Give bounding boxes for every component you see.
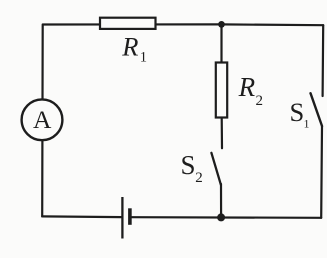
- svg-text:1: 1: [304, 117, 310, 131]
- wire bottom right (battery to corner): [132, 216, 322, 219]
- wire middle branch lower (S2 to bottom junction): [220, 184, 222, 217]
- label R1: [121, 32, 147, 66]
- svg-text:1: 1: [140, 50, 147, 66]
- resistor R1: [100, 18, 156, 29]
- switch S2 blade: [211, 153, 221, 185]
- svg-text:S: S: [181, 150, 196, 180]
- node junction top (middle branch / top wire): [218, 21, 225, 28]
- wire top side: [43, 23, 323, 26]
- wire left side: [41, 25, 44, 217]
- ammeter A1: [22, 99, 63, 140]
- svg-text:R: R: [238, 72, 256, 102]
- wire right side upper (to switch S1): [322, 25, 325, 96]
- wire middle branch upper (junction to R2): [220, 24, 222, 65]
- wire middle branch (R2 to S2 contact): [221, 117, 224, 148]
- battery B1 short plate (-): [128, 208, 132, 225]
- svg-text:2: 2: [256, 93, 264, 109]
- switch S1 blade: [311, 93, 323, 126]
- battery B1 long plate (+): [121, 197, 123, 239]
- svg-text:2: 2: [195, 170, 203, 186]
- wire bottom left (to battery): [42, 215, 121, 218]
- resistor R2: [216, 63, 227, 118]
- svg-text:R: R: [121, 32, 138, 62]
- svg-text:S: S: [290, 97, 305, 127]
- label S1: [290, 97, 310, 131]
- wire right side lower (S1 to corner): [320, 126, 323, 218]
- svg-text:A: A: [33, 105, 52, 134]
- label R2: [238, 72, 263, 109]
- label S2: [181, 150, 203, 186]
- node junction bottom (middle branch / bottom wire): [217, 213, 225, 221]
